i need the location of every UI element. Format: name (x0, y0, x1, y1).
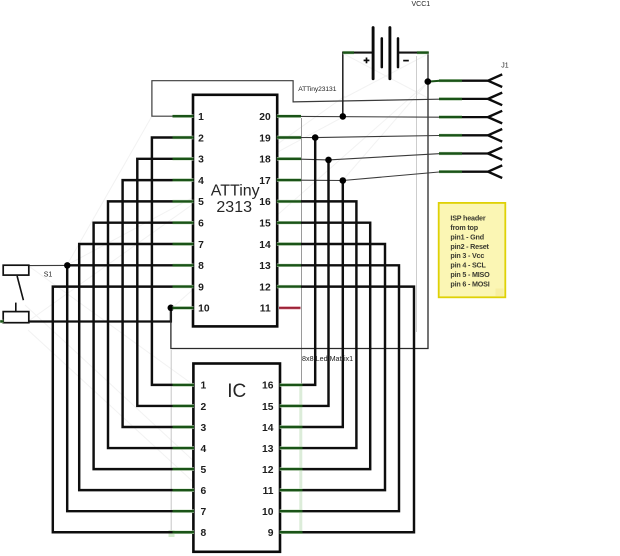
switch S1 bottom terminal (3, 312, 29, 323)
svg-text:5: 5 (201, 465, 207, 476)
wire ATTiny pin20 to J1 pin3 (Vcc) (301, 115, 439, 118)
svg-text:11: 11 (263, 486, 274, 497)
svg-text:pin1 - Gnd: pin1 - Gnd (450, 232, 484, 241)
U1 pin 1 (173, 114, 194, 117)
wire ATTiny pin14 to matrix pin11 (277, 244, 385, 490)
battery minus sign (403, 60, 409, 62)
U2 pin 5 (173, 467, 195, 470)
svg-text:11: 11 (260, 304, 271, 315)
U2 pin 4 (173, 446, 195, 449)
U2 pin 2 (173, 404, 195, 407)
svg-text:pin 5 - MISO: pin 5 - MISO (450, 270, 490, 279)
U2 pin 9 (280, 531, 303, 534)
U1 pin 5 (173, 200, 194, 203)
wire ATTiny pin17 junction down to matrix pin14 (280, 181, 343, 428)
switch S1 lever (17, 276, 23, 300)
junction S1 / ATTiny pin8 (64, 262, 71, 269)
J1 pin 2 (439, 97, 462, 100)
U2 pin 16 (280, 383, 303, 386)
wire ATTiny pin3 to matrix pin2 (137, 159, 193, 406)
svg-text:J1: J1 (501, 63, 509, 70)
junction pin18 / J1 pin5 (325, 157, 332, 164)
svg-text:18: 18 (259, 155, 271, 166)
faint vertical leader near x=301 (301, 118, 303, 384)
svg-text:8x8 Led Matrix1: 8x8 Led Matrix1 (302, 354, 353, 363)
junction battery minus / J1 pin1 (425, 78, 432, 85)
wire ATTiny pin12 to matrix pin9 (277, 287, 414, 533)
J1 pin 5 (439, 152, 462, 155)
svg-text:10: 10 (262, 507, 274, 518)
U2 pin 11 (280, 488, 303, 491)
svg-text:17: 17 (259, 176, 271, 187)
switch S1 green pin stub (0, 320, 3, 323)
IC U2 matrix body (193, 364, 280, 552)
U1 pin 12 (277, 285, 301, 288)
svg-text:3: 3 (201, 423, 207, 434)
U1 pin 15 (277, 221, 301, 224)
wire ATTiny pin2 to matrix pin1 (152, 138, 194, 385)
svg-text:pin2 - Reset: pin2 - Reset (450, 242, 489, 251)
svg-text:15: 15 (262, 402, 274, 413)
svg-text:15: 15 (259, 219, 271, 230)
pale green glow at matrix pin8 wire end (169, 530, 175, 537)
U1 pin 2 (173, 136, 194, 139)
svg-text:from top: from top (450, 223, 478, 232)
svg-text:16: 16 (259, 197, 271, 208)
svg-text:2: 2 (201, 402, 207, 413)
wire ATTiny pin19 junction down to matrix pin16 (280, 138, 315, 385)
J1 pin 1 (439, 79, 462, 82)
svg-text:7: 7 (198, 240, 204, 251)
U1 pin 3 (173, 157, 194, 160)
svg-text:8: 8 (198, 261, 204, 272)
svg-text:ISP header: ISP header (450, 214, 485, 223)
svg-text:14: 14 (262, 423, 274, 434)
wire battery minus / GND bus (398, 52, 429, 54)
wire ATTiny pin16 to matrix pin13 (277, 201, 356, 448)
U2 pin 6 (173, 488, 195, 491)
wire ATTiny pin17 to J1 pin6 (MOSI) (301, 172, 439, 181)
faint vertical leader near x=416 (416, 56, 418, 332)
wire ATTiny pin4 to matrix pin3 (123, 180, 194, 427)
svg-text:10: 10 (198, 304, 210, 315)
wire ATTiny pin9 to matrix pin8 (53, 287, 194, 533)
junction pin17 / J1 pin6 (340, 177, 347, 184)
op IC U1 ATTiny2313 body (193, 95, 277, 327)
J1 pin 6 (439, 170, 462, 173)
svg-text:3: 3 (198, 155, 204, 166)
battery terminal stubs (343, 51, 354, 54)
svg-text:19: 19 (259, 133, 271, 144)
svg-text:4: 4 (198, 176, 204, 187)
wire ATTiny pin18 junction down to matrix pin15 (280, 160, 329, 406)
wire ATTiny pin6 to matrix pin5 (94, 223, 194, 469)
U1 pin 8 (173, 264, 194, 267)
U2 pin 7 (173, 510, 195, 513)
U2 pin 15 (280, 404, 303, 407)
wire ATTiny pin5 to matrix pin4 (108, 201, 193, 448)
svg-text:VCC1: VCC1 (412, 1, 431, 8)
svg-text:6: 6 (201, 486, 207, 497)
J1 pin 3 (439, 115, 462, 118)
svg-text:4: 4 (201, 444, 207, 455)
wire ATTiny pin13 to matrix pin10 (277, 265, 399, 511)
junction GND / ATTiny pin10 (168, 305, 175, 312)
junction battery plus / pin20 Vcc (340, 113, 347, 120)
U2 pin 8 (173, 531, 195, 534)
svg-text:9: 9 (198, 282, 204, 293)
svg-text:9: 9 (268, 528, 274, 539)
U1 pin 9 (173, 285, 194, 288)
U1 pin 20 (277, 114, 301, 117)
wire ATTiny pin8 to matrix pin7 (67, 265, 193, 511)
note ISP header (439, 203, 506, 297)
faint vertical leader near x=171 (170, 350, 172, 532)
U1 pin 16 (277, 200, 301, 203)
U1 pin 18 (277, 157, 301, 160)
U1 pin 10 (173, 306, 194, 309)
pale green stub-end column U2 right (299, 384, 302, 533)
U2 pin 10 (280, 510, 303, 513)
U1 pin 11 (279, 306, 301, 310)
U2 pin 3 (173, 425, 195, 428)
wire ATTiny pin7 to matrix pin6 (79, 244, 193, 490)
wire ATTiny pin15 to matrix pin12 (277, 223, 370, 469)
switch S1 top terminal (3, 265, 29, 275)
U2 pin 1 (173, 383, 195, 386)
svg-text:7: 7 (201, 507, 207, 518)
junction pin19 / J1 pin4 (312, 134, 319, 141)
U1 pin 17 (277, 178, 301, 181)
svg-text:6: 6 (198, 219, 204, 230)
wire S1 top terminal to ATTiny pin8 junction (29, 264, 68, 266)
svg-text:pin 3 - Vcc: pin 3 - Vcc (450, 251, 484, 260)
svg-text:pin 6 - MOSI: pin 6 - MOSI (450, 279, 489, 288)
U1 pin 6 (173, 221, 194, 224)
U1 pin 19 (277, 136, 301, 139)
wire ATTiny pin19 to J1 pin4 (SCL) (301, 136, 439, 138)
svg-text:1: 1 (198, 112, 204, 123)
U2 pin 12 (280, 467, 303, 470)
svg-text:ATTiny23131: ATTiny23131 (298, 86, 337, 93)
svg-text:8: 8 (201, 528, 207, 539)
ratsnest faint lines (25, 54, 428, 502)
wire ATTiny pin1 to J1 pin2 (Reset net) (152, 81, 439, 117)
svg-text:pin 4 - SCL: pin 4 - SCL (450, 261, 486, 270)
svg-text:2: 2 (198, 133, 204, 144)
U1 pin 7 (173, 242, 194, 245)
svg-text:13: 13 (259, 261, 271, 272)
svg-text:1: 1 (201, 381, 207, 392)
battery plus sign (364, 59, 370, 61)
J1 pin 4 (439, 134, 462, 137)
wire battery minus to J1 pin1 (Gnd) (428, 80, 440, 83)
wire S1 bottom terminal to GND riser (29, 308, 171, 322)
switch S1 lower contact stub (15, 303, 17, 312)
svg-text:5: 5 (198, 197, 204, 208)
U1 pin 4 (173, 178, 194, 181)
svg-text:IC: IC (227, 381, 246, 402)
U1 pin 13 (277, 264, 301, 267)
svg-text:16: 16 (262, 381, 274, 392)
wire ATTiny pin18 to J1 pin5 (MISO) (301, 154, 439, 160)
U2 pin 14 (280, 425, 303, 428)
svg-text:12: 12 (259, 282, 271, 293)
U1 pin 14 (277, 242, 301, 245)
U2 pin 13 (280, 446, 303, 449)
svg-text:S1: S1 (44, 272, 53, 279)
svg-text:14: 14 (259, 240, 271, 251)
svg-text:12: 12 (262, 465, 274, 476)
svg-text:20: 20 (259, 112, 271, 123)
svg-text:ATTiny: ATTiny (211, 183, 260, 200)
svg-text:2313: 2313 (216, 199, 252, 216)
battery VCC1 plates (372, 28, 375, 79)
svg-text:13: 13 (262, 444, 274, 455)
wire battery plus to ATTiny pin20 (Vcc) (342, 52, 373, 54)
